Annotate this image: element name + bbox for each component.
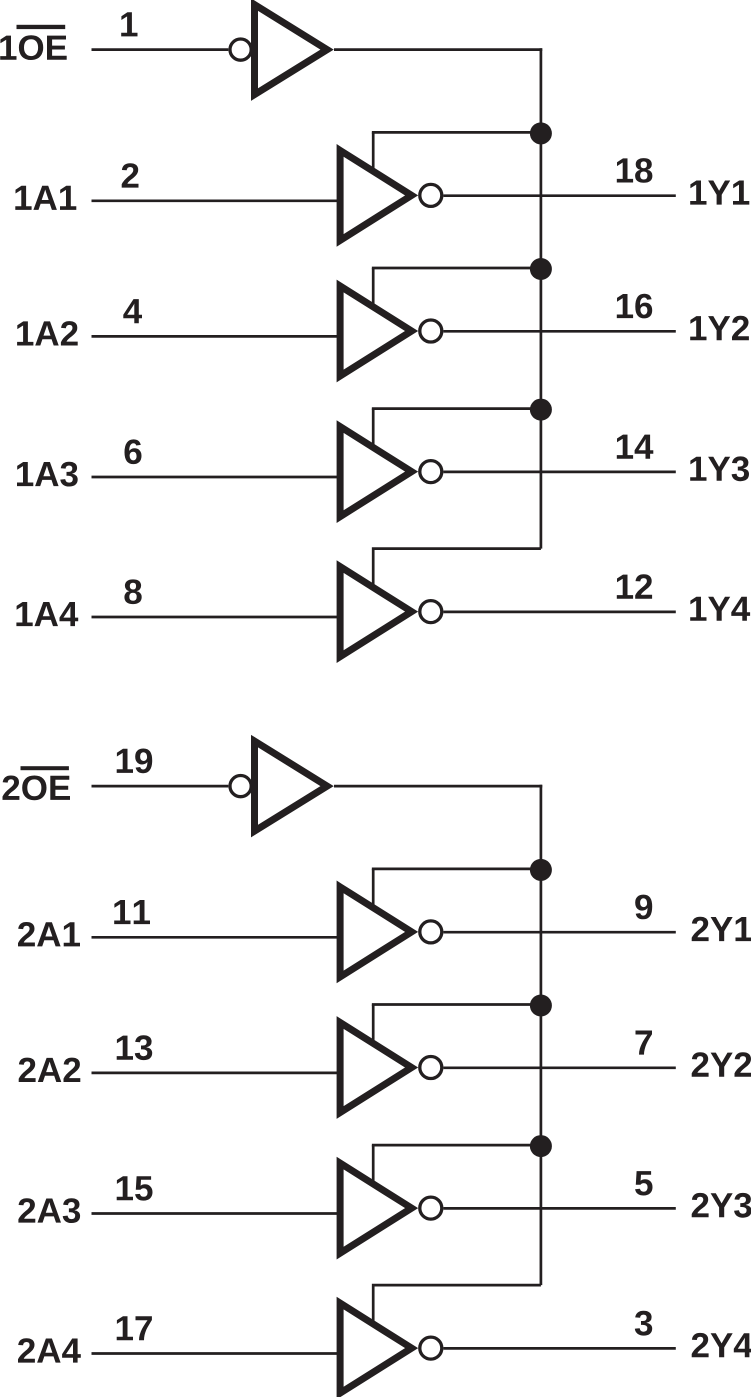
wire 2A4 input xyxy=(92,1352,341,1355)
pin number 17 (2A4) xyxy=(117,1316,152,1340)
wire 2A3 input xyxy=(92,1212,341,1215)
enable buffer U2a: triangle xyxy=(255,741,328,831)
net 2A3: input label xyxy=(18,1198,80,1223)
inverting buffer gate 1A1->1Y1: triangle xyxy=(340,150,412,240)
pin number 8 (1A4) xyxy=(124,579,141,604)
enable buffer U2a: input bubble (active low) xyxy=(230,776,251,797)
inverting buffer gate 2A3->2Y3: triangle xyxy=(340,1163,412,1253)
net 1OE: input label (pin 1) xyxy=(0,35,67,60)
pin number 13 (2A2) xyxy=(117,1035,153,1060)
net 2Y3: output label xyxy=(692,1193,751,1218)
pin number 3 (2Y4) xyxy=(635,1311,652,1336)
wire 1Y2 output xyxy=(443,330,675,333)
pin number 9 (2Y1) xyxy=(635,895,652,920)
pin number 12 (1Y4) xyxy=(617,574,652,598)
net 2A4: input label xyxy=(18,1338,81,1362)
wire 1Y1 output xyxy=(443,194,675,197)
junction node: enable bus to 2A1 row xyxy=(530,859,552,881)
net 1A3: input label xyxy=(17,462,78,487)
wire 1Y4 output xyxy=(443,611,675,614)
wire enable branch horizontal (1A2 row) xyxy=(372,267,541,270)
wire 2OE buffer output to enable bus xyxy=(334,785,542,788)
net 2Y2: output label xyxy=(692,1052,751,1076)
wire 2Y1 output xyxy=(443,931,675,934)
net 1Y3: output label xyxy=(690,456,749,481)
pin number 19 (2OE) xyxy=(117,749,153,774)
wire 2Y4 output xyxy=(443,1347,675,1350)
net 1Y4: output label xyxy=(690,597,750,621)
inverting buffer gate 1A4->1Y4: output bubble xyxy=(420,601,442,623)
inverting buffer gate 2A2->2Y2: triangle xyxy=(340,1023,412,1113)
wire enable bus vertical (bank 1) xyxy=(540,48,543,548)
wire enable branch to gate 1A3 gate xyxy=(372,409,375,452)
net 1Y1: output label xyxy=(690,181,749,205)
junction node: enable bus to 2A3 row xyxy=(530,1135,552,1157)
junction node: enable bus to 1A2 row xyxy=(530,258,552,280)
net 1A4: input label xyxy=(16,602,78,626)
wire 2A1 input xyxy=(92,936,341,939)
overline over OE of 2OE xyxy=(21,766,69,770)
inverting buffer gate 1A4->1Y4: triangle xyxy=(340,567,412,657)
net 2A1: input label xyxy=(18,922,80,946)
wire 2Y2 output xyxy=(443,1066,675,1069)
inverting buffer gate 2A4->2Y4: output bubble xyxy=(420,1337,442,1359)
net 2A2: input label xyxy=(19,1058,81,1082)
pin number 2 (1A1) xyxy=(122,163,139,187)
wire enable branch horizontal (2A3 row) xyxy=(372,1144,541,1147)
pin number 14 (1Y3) xyxy=(617,435,654,459)
pin number 1 (1OE) xyxy=(121,12,137,36)
pin number 7 (2Y2) xyxy=(636,1031,653,1055)
wire enable branch to gate 2A3 gate xyxy=(372,1145,375,1188)
net 2Y4: output label xyxy=(692,1333,751,1357)
wire 2A2 input xyxy=(92,1072,341,1075)
inverting buffer gate 2A2->2Y2: output bubble xyxy=(420,1057,442,1079)
wire 1A3 input xyxy=(92,476,341,479)
inverting buffer gate 2A1->2Y1: triangle xyxy=(340,887,412,977)
wire 2Y3 output xyxy=(443,1207,675,1210)
pin number 6 (1A3) xyxy=(125,439,142,464)
enable buffer U1a: input bubble (active low) xyxy=(230,39,251,60)
wire 1OE input xyxy=(92,48,229,51)
inverting buffer gate 1A2->1Y2: triangle xyxy=(340,286,412,376)
wire 1A2 input xyxy=(92,335,341,338)
pin number 16 (1Y2) xyxy=(617,294,652,319)
pin number 15 (2A3) xyxy=(117,1176,153,1200)
pin number 18 (1Y1) xyxy=(617,158,653,183)
inverting buffer gate 1A3->1Y3: output bubble xyxy=(420,461,442,483)
wire enable branch horizontal (2A1 row) xyxy=(372,868,541,871)
junction node: enable bus to 1A3 row xyxy=(530,399,552,421)
wire enable branch to gate 1A2 gate xyxy=(372,268,375,311)
enable buffer U1a: triangle xyxy=(255,5,328,95)
junction node: enable bus to 1A1 row xyxy=(530,122,552,144)
inverting buffer gate 1A3->1Y3: triangle xyxy=(340,427,412,517)
wire enable branch to gate 1A1 gate xyxy=(372,132,375,175)
wire enable branch to gate 2A1 gate xyxy=(372,869,375,912)
wire 2OE input xyxy=(92,785,229,788)
inverting buffer gate 1A2->1Y2: output bubble xyxy=(420,320,442,342)
wire enable bus vertical (bank 2) xyxy=(540,785,543,1285)
pin number 11 (2A1) xyxy=(114,900,150,924)
wire 1A4 input xyxy=(92,616,341,619)
inverting buffer gate 2A1->2Y1: output bubble xyxy=(420,921,442,943)
net 2OE: input label (pin 19) xyxy=(3,776,71,801)
net 2Y1: output label xyxy=(692,917,751,941)
wire 1Y3 output xyxy=(443,471,675,474)
pin number 5 (2Y3) xyxy=(635,1171,652,1195)
wire 1A1 input xyxy=(92,199,341,202)
inverting buffer gate 1A1->1Y1: output bubble xyxy=(420,184,442,206)
wire enable bus bottom jog to gate 1A4 xyxy=(373,549,541,592)
wire enable bus bottom jog to gate 2A4 xyxy=(373,1285,541,1328)
wire 1OE buffer output to enable bus xyxy=(334,48,542,51)
net 1Y2: output label xyxy=(690,316,749,340)
overline over OE of 1OE xyxy=(17,25,66,29)
pin number 4 (1A2) xyxy=(123,299,142,323)
inverting buffer gate 2A3->2Y3: output bubble xyxy=(420,1197,442,1219)
junction node: enable bus to 2A2 row xyxy=(530,995,552,1017)
wire enable branch horizontal (1A1 row) xyxy=(372,131,541,134)
wire enable branch to gate 2A2 gate xyxy=(372,1005,375,1048)
wire enable branch horizontal (2A2 row) xyxy=(372,1003,541,1006)
net 1A1: input label xyxy=(15,186,76,210)
inverting buffer gate 2A4->2Y4: triangle xyxy=(340,1303,412,1393)
wire enable branch horizontal (1A3 row) xyxy=(372,407,541,410)
net 1A2: input label xyxy=(17,321,78,345)
